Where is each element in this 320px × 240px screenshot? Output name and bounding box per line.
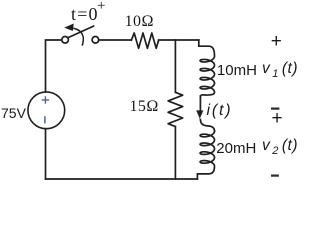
plus mark inside source: [42, 97, 48, 103]
wire source bottom to rail: [45, 129, 47, 179]
label v1(t) plus sign: [271, 31, 282, 53]
wire between inductors with current arrow shaft: [199, 96, 201, 113]
label t=0+: [71, 4, 99, 25]
wire from switch right pole to resistor R1: [99, 39, 132, 41]
switch motion arc: [74, 28, 83, 45]
wire from arrow into inductor L2: [200, 120, 214, 132]
label 75V: [1, 105, 26, 121]
node junction to resistor R2 branch: [174, 40, 176, 92]
switch blade: [68, 26, 94, 37]
label 15 ohm: [130, 98, 160, 116]
label 10mH: [217, 62, 257, 79]
current arrowhead i(t): [196, 110, 203, 118]
label 20mH: [216, 140, 256, 157]
label v1(t) minus sign: [270, 106, 284, 112]
switch arrowhead: [64, 24, 74, 32]
voltage source circle 75V: [28, 92, 65, 129]
label i(t): [207, 102, 233, 120]
resistor 15ohm zigzag: [168, 92, 183, 126]
resistor 10ohm zigzag: [131, 33, 158, 48]
switch right pole circle: [92, 37, 99, 44]
label 10 ohm: [125, 13, 155, 31]
inductor L1 10mH lead and coil: [199, 40, 215, 97]
label v2(t) plus sign: [272, 108, 283, 130]
label v2(t) minus sign: [270, 173, 284, 179]
wire top-left horizontal from corner to switch left pole: [46, 40, 62, 92]
wire resistor R2 to bottom rail: [174, 127, 176, 179]
bottom rail wire: [46, 178, 198, 180]
wire from resistor R1 to top-right corner: [159, 39, 199, 41]
label v2(t): [262, 137, 298, 157]
inductor L2 20mH coil: [197, 131, 214, 179]
minus mark inside source (vertical tick): [44, 117, 46, 123]
switch left pole circle: [62, 37, 69, 44]
label v1(t): [262, 60, 298, 80]
